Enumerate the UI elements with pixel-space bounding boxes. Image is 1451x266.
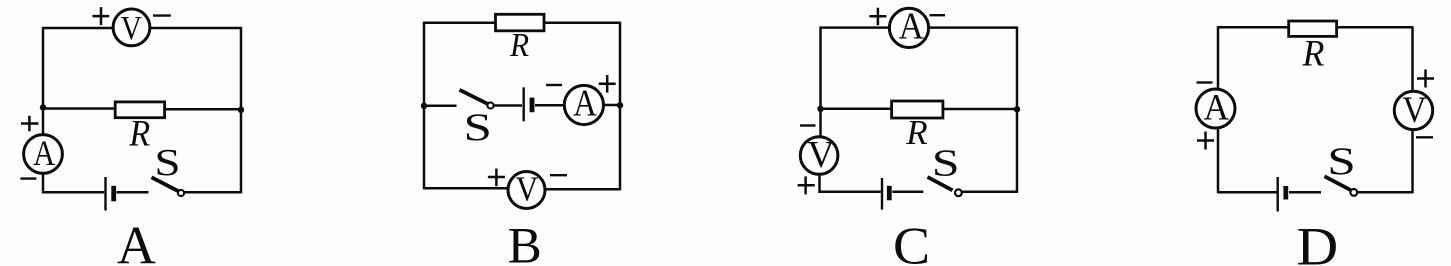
ammeter A circle C <box>889 8 928 47</box>
svg-text:R: R <box>905 113 927 152</box>
svg-text:A: A <box>33 134 55 174</box>
wire ammeter-to-right B <box>602 104 620 107</box>
wire top-left D <box>1218 26 1290 29</box>
voltmeter V circle A <box>113 9 150 46</box>
minus sign voltmeter B <box>550 174 567 176</box>
junction dot A right <box>238 107 244 113</box>
ammeter A circle D <box>1196 89 1235 128</box>
battery short thick plate A <box>111 186 116 202</box>
plus sign ammeter B <box>599 75 616 93</box>
wire left vertical B <box>423 22 426 190</box>
plus sign ammeter C <box>869 8 886 26</box>
battery long plate B <box>523 87 525 121</box>
wire bottom-left C <box>818 191 880 194</box>
svg-text:V: V <box>1402 89 1427 131</box>
wire middle junction-to-switch B <box>424 105 457 108</box>
junction dot C right <box>1014 106 1020 112</box>
wire bottom-right A <box>184 191 241 194</box>
svg-text:V: V <box>121 9 142 46</box>
minus sign voltmeter A <box>153 14 171 16</box>
battery short thick plate B <box>530 98 535 113</box>
switch S blade B <box>460 90 488 104</box>
wire battery-to-switch A <box>117 191 149 194</box>
wire battery-to-switch C <box>892 191 923 194</box>
switch S contact circle D <box>1350 189 1357 196</box>
battery long plate D <box>1276 177 1278 212</box>
wire left vertical C <box>819 27 822 137</box>
svg-text:D: D <box>1297 217 1339 266</box>
junction dot C left <box>817 106 823 112</box>
svg-text:S: S <box>154 142 180 184</box>
voltmeter V circle C <box>800 137 838 175</box>
minus sign voltmeter D <box>1416 136 1433 138</box>
wire left vertical A <box>42 27 45 137</box>
minus sign ammeter B <box>546 84 562 86</box>
wire top-right B <box>543 21 620 24</box>
junction dot B right <box>617 102 623 108</box>
svg-text:V: V <box>807 134 834 176</box>
ammeter A circle A <box>24 135 63 174</box>
wire middle-right C <box>942 108 1017 111</box>
wire bottom-left A <box>42 191 104 194</box>
minus sign ammeter C <box>930 14 946 16</box>
svg-text:R: R <box>509 27 529 64</box>
junction dot A left <box>40 104 46 110</box>
wire right vertical C <box>1016 27 1019 193</box>
resistor R box B <box>496 14 545 31</box>
plus sign voltmeter C <box>798 176 815 194</box>
wire right vertical B <box>619 22 622 191</box>
wire middle-left C <box>821 108 893 111</box>
svg-text:B: B <box>508 219 542 266</box>
voltmeter V circle B <box>508 172 545 209</box>
wire bottom-right C <box>962 191 1017 194</box>
wire top-right A <box>149 27 241 30</box>
wire top-left A <box>43 27 114 30</box>
svg-text:A: A <box>1204 87 1229 128</box>
wire left vertical lower D <box>1217 128 1220 194</box>
ammeter A circle B <box>564 85 603 124</box>
switch S blade A <box>152 177 179 191</box>
plus sign voltmeter D <box>1417 70 1434 88</box>
wire ammeter-to-bottom A <box>42 172 45 193</box>
junction dot B left <box>421 103 427 109</box>
wire battery-to-switch D <box>1289 191 1321 194</box>
battery long plate A <box>104 177 106 211</box>
resistor R box D <box>1289 21 1337 36</box>
svg-text:V: V <box>516 170 539 209</box>
wire top-right C <box>928 26 1017 29</box>
battery short thick plate C <box>887 186 892 201</box>
switch S contact circle B <box>487 102 493 108</box>
plus sign voltmeter B <box>488 169 505 187</box>
svg-text:A: A <box>899 4 925 47</box>
wire bottom-right B <box>544 188 620 191</box>
minus sign voltmeter C <box>800 124 816 126</box>
wire top-left C <box>821 26 891 29</box>
switch S blade D <box>1325 176 1351 190</box>
wire middle-left A <box>43 107 116 110</box>
svg-text:S: S <box>463 106 491 149</box>
wire bottom-left B <box>424 187 509 190</box>
wire bottom-left D <box>1218 191 1277 194</box>
svg-text:S: S <box>932 141 960 184</box>
wire right vertical upper D <box>1411 26 1414 92</box>
battery short thick plate D <box>1283 186 1288 200</box>
wire top-right D <box>1336 26 1413 29</box>
svg-text:S: S <box>1327 139 1356 183</box>
battery long plate C <box>881 178 883 210</box>
svg-text:C: C <box>893 216 930 266</box>
switch S blade C <box>928 177 953 190</box>
wire right vertical A <box>240 27 243 194</box>
wire voltmeter-to-bottom C <box>818 173 821 193</box>
resistor R box A <box>115 102 164 118</box>
wire bottom-right D <box>1357 191 1412 194</box>
svg-text:R: R <box>128 112 150 154</box>
plus sign ammeter A <box>21 116 38 132</box>
wire top-left B <box>424 21 496 24</box>
wire right vertical lower D <box>1411 130 1414 194</box>
resistor R box C <box>892 101 943 118</box>
svg-text:A: A <box>117 216 156 266</box>
wire battery-to-ammeter B <box>535 104 566 107</box>
wire left vertical upper D <box>1217 26 1220 90</box>
svg-text:R: R <box>1301 33 1324 74</box>
switch S contact circle A <box>178 190 184 196</box>
svg-text:A: A <box>573 81 597 124</box>
plus sign ammeter D <box>1197 132 1214 150</box>
wire switch-to-battery B <box>494 104 522 107</box>
switch S contact circle C <box>955 189 962 196</box>
plus sign voltmeter A <box>92 7 109 25</box>
minus sign ammeter A <box>20 177 36 179</box>
voltmeter V circle D <box>1394 91 1432 129</box>
wire middle-right A <box>164 108 241 111</box>
minus sign ammeter D <box>1197 81 1213 83</box>
